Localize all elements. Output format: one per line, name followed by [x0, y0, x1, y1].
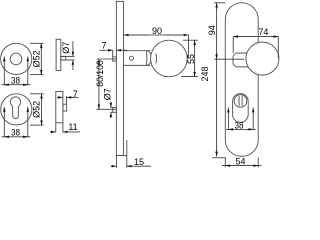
svg-text:94: 94 [207, 25, 217, 35]
svg-text:7: 7 [73, 89, 78, 99]
svg-text:38: 38 [11, 76, 20, 86]
svg-text:248: 248 [200, 66, 210, 81]
svg-text:Ø7: Ø7 [102, 88, 112, 100]
svg-text:90: 90 [152, 26, 162, 36]
svg-text:38: 38 [235, 120, 244, 130]
svg-text:11: 11 [68, 122, 77, 132]
svg-text:15: 15 [134, 157, 144, 167]
svg-text:74: 74 [258, 27, 268, 37]
svg-text:Ø52: Ø52 [32, 101, 42, 118]
svg-text:38: 38 [11, 128, 20, 138]
svg-text:7: 7 [101, 40, 106, 50]
svg-text:Ø52: Ø52 [32, 50, 42, 67]
svg-text:Ø7: Ø7 [61, 42, 71, 54]
svg-text:55: 55 [186, 54, 196, 64]
svg-text:54: 54 [235, 157, 245, 167]
svg-text:80/100: 80/100 [95, 60, 105, 87]
